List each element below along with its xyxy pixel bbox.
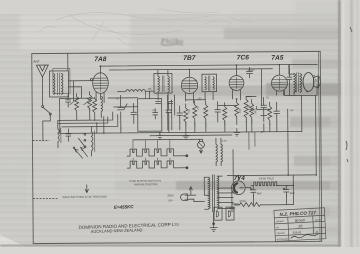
svg-text:Brown: Brown	[295, 218, 305, 223]
field coil choke	[251, 182, 294, 186]
title block	[274, 208, 326, 242]
electrolytic 8MF 2	[283, 185, 289, 196]
wire: 7C6 bias links	[246, 96, 277, 132]
svg-text:230V: 230V	[167, 194, 174, 198]
ground mid 3	[234, 128, 240, 136]
right margin pen marks	[346, 27, 352, 162]
wire: bias links row	[186, 96, 252, 106]
ground under 7Y4 line	[229, 204, 235, 212]
coupling cap near 7C6	[246, 67, 252, 77]
wire: AVC drop from frame	[67, 53, 69, 70]
svg-text:2M: 2M	[247, 106, 250, 108]
lamp box 1	[214, 207, 222, 220]
svg-text:1.8.41: 1.8.41	[314, 219, 321, 221]
dashed gang link 1	[33, 139, 49, 141]
svg-text:50K: 50K	[189, 108, 191, 112]
wire: plate bus left	[60, 97, 138, 100]
arrow symbol lower left	[85, 185, 88, 193]
ground below transformer	[210, 212, 217, 232]
left coil lower	[58, 121, 61, 148]
resistor x206	[204, 101, 208, 127]
cap x218	[215, 102, 221, 122]
screen resistor under 7B7	[193, 101, 197, 127]
cap .05 in loop	[153, 109, 158, 119]
resistor x77	[75, 94, 79, 114]
approval signature	[291, 234, 319, 239]
tube 7C6	[229, 65, 244, 100]
svg-text:7Y4: 7Y4	[234, 175, 246, 182]
company name	[79, 222, 180, 234]
tube 7A5	[271, 65, 287, 96]
svg-text:TRACED: TRACED	[277, 232, 286, 235]
vertical value labels	[189, 105, 258, 115]
comb feed wires	[133, 140, 170, 161]
wire: second top bus	[109, 69, 272, 70]
tuning cap C2	[118, 95, 128, 129]
wire: bias feed stubs	[249, 132, 255, 150]
resistor x225	[223, 103, 227, 126]
wire knot mid-left	[58, 108, 118, 126]
svg-text:100MF: 100MF	[247, 70, 255, 72]
paper bottom edge shadow	[0, 245, 340, 247]
svg-text:50~: 50~	[168, 199, 173, 203]
svg-text:7A8: 7A8	[94, 56, 106, 63]
svg-text:20K: 20K	[290, 110, 295, 112]
cap x169	[166, 102, 172, 122]
cap left b	[66, 129, 71, 141]
wire: right verticals	[288, 95, 317, 175]
power transformer	[204, 175, 233, 212]
grid cap dot 7A8	[90, 79, 92, 81]
wire: resistor tails to bus	[169, 122, 225, 133]
resistor x270	[268, 102, 272, 125]
wire: mid ground bus	[60, 132, 302, 137]
dashed gang link 2	[33, 197, 57, 199]
svg-text:2MEG: 2MEG	[255, 108, 257, 115]
speaker	[303, 72, 321, 92]
IF transformer 1	[154, 70, 172, 100]
svg-text:5.8.41: 5.8.41	[292, 230, 301, 234]
top scribbles (pencil noise)	[38, 9, 253, 44]
wire: 7A5 grid row	[256, 69, 270, 110]
svg-text:7A5: 7A5	[271, 55, 283, 62]
bleeder resistor	[234, 202, 293, 206]
wire: osc feed verticals	[168, 95, 175, 130]
svg-text:E=455KC: E=455KC	[114, 204, 135, 210]
mains plug	[181, 187, 205, 202]
wire: comb bus	[133, 138, 202, 141]
svg-text:WAVE SWITCHES AT SE POSITIONS: WAVE SWITCHES AT SE POSITIONS	[62, 195, 107, 199]
osc switch arrows	[73, 147, 87, 158]
oscillator coil	[78, 127, 95, 157]
resistor x186	[184, 104, 188, 126]
electrolytic 8MF 1	[250, 186, 256, 197]
wire: left riser	[59, 98, 61, 133]
output cap	[287, 72, 292, 84]
svg-text:7C6: 7C6	[237, 54, 249, 61]
grid resistor under 7A8	[93, 97, 97, 121]
svg-text:8MF: 8MF	[290, 192, 295, 195]
paper right edge shadow	[338, 0, 341, 248]
cap x134	[131, 103, 137, 123]
ground mid 1	[157, 133, 163, 140]
wire verticals to bus	[97, 116, 121, 133]
push-button comb row 1	[127, 149, 188, 157]
wire: choke node vertical	[253, 175, 293, 205]
padder coil (horizontal)	[118, 89, 154, 91]
wire: HT riser	[232, 150, 234, 188]
svg-text:470Ω: 470Ω	[239, 200, 245, 203]
svg-text:470K: 470K	[240, 108, 242, 114]
wire: top AVC bus	[100, 64, 317, 66]
cap x264	[261, 97, 267, 121]
resistor x252	[250, 99, 254, 123]
svg-text:No.: No.	[276, 227, 280, 229]
antenna coil T1	[49, 68, 70, 97]
svg-text:ANT: ANT	[33, 60, 39, 64]
antenna	[36, 65, 48, 105]
IF transformer 2	[202, 74, 217, 100]
filter choke coils	[216, 138, 223, 166]
ground mid 2	[183, 132, 189, 139]
svg-text:MANUAL POSITION: MANUAL POSITION	[134, 183, 157, 186]
tuning trimmer arrows	[70, 98, 93, 105]
volume pot	[244, 96, 254, 122]
cathode coil under 7A8	[101, 96, 103, 118]
wire: speaker bottom line	[284, 64, 317, 95]
push-button comb row 2	[127, 161, 188, 169]
svg-text:1000Ω FIELD: 1000Ω FIELD	[259, 177, 274, 180]
schematic border	[32, 51, 322, 243]
tube 7A8	[93, 66, 109, 103]
svg-text:8MF: 8MF	[257, 192, 262, 195]
cap left a	[66, 95, 71, 107]
lamp box 2	[226, 207, 234, 220]
wire: coil to 7A8 grid	[68, 81, 92, 101]
tube 7B7	[181, 69, 198, 103]
tube 7Y4	[227, 175, 316, 204]
section loop rectangle	[114, 91, 162, 131]
cap x180	[177, 106, 183, 122]
diode load resistor x237	[235, 99, 239, 125]
svg-text:7B7: 7B7	[183, 55, 195, 62]
svg-text:6.3V: 6.3V	[222, 141, 227, 143]
antenna switch	[42, 105, 52, 141]
resistor x90	[88, 92, 92, 111]
pilot lamp	[197, 139, 204, 153]
stamp smudge	[160, 38, 184, 46]
output transformer	[289, 65, 302, 96]
wire x146	[145, 91, 147, 98]
cap x277	[274, 102, 280, 121]
svg-text:25K: 25K	[198, 105, 200, 109]
trimmer caps under IFT1	[156, 102, 173, 104]
svg-text:APPROVED: APPROVED	[277, 238, 289, 242]
svg-text:DRAWN: DRAWN	[276, 220, 284, 223]
